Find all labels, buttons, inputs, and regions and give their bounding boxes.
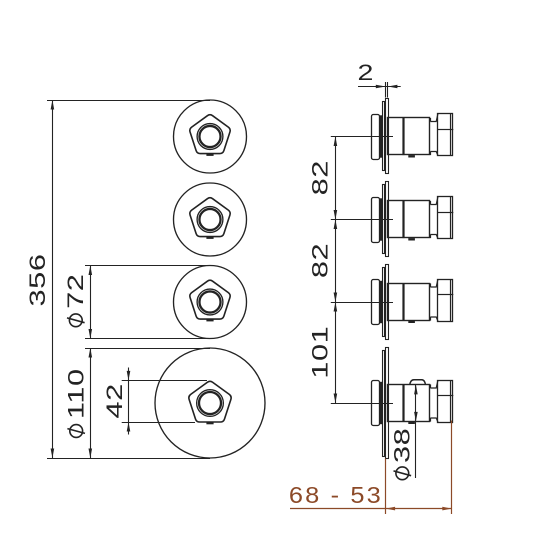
valve 2 (side view) bottom tab: [408, 238, 415, 240]
svg-text:110: 110: [64, 368, 89, 419]
valve 2 (side view) flange: [372, 198, 380, 243]
valve 4 (side view) wall plate front: [383, 351, 385, 457]
valve 3 (side view) flange: [372, 280, 380, 325]
knob 1 (front view) outer circle: [174, 100, 247, 173]
valve 1 (side view) gasket bar: [380, 115, 383, 157]
valve 4 (side view) bottom tab: [408, 422, 415, 424]
svg-text:42: 42: [102, 383, 127, 418]
dim phi72 diameter symbol: [67, 314, 85, 327]
knob 4 large (front view) outer circle: [155, 348, 265, 458]
depth dim left extension (brown): [385, 459, 387, 515]
valve 4 (side view) wall plate back: [386, 348, 389, 459]
depth dim right extension (brown): [451, 421, 453, 515]
knob 4 large (front view) pentagon handle: [189, 381, 231, 422]
valve 3 (side view) body divider: [402, 283, 404, 320]
valve 3 (side view) cap horizontal line: [438, 294, 453, 296]
knob 2 (front view) ring inner: [199, 209, 220, 230]
knob 2 (front view) pentagon handle: [190, 198, 230, 237]
valve 3 (side view) cartridge cap: [438, 280, 453, 322]
knob 2 (front view) outer circle: [174, 183, 247, 256]
valve 4 (side view) cap inner line: [450, 380, 452, 422]
dim 356 extension line top: [47, 100, 210, 102]
knob 1 (front view) ring inner: [199, 126, 220, 147]
valve 3 (side view) body: [388, 284, 430, 321]
knob 3 (front view) outer circle: [174, 266, 247, 339]
dim 356 extension line bottom: [47, 458, 210, 460]
valve 1 (side view) body: [388, 118, 430, 155]
dim phi110 diameter symbol: [67, 425, 85, 438]
valve 1 (side view) neck: [430, 114, 438, 156]
svg-text:356: 356: [25, 253, 50, 306]
knob 1 (front view) pentagon handle: [190, 115, 230, 154]
valve 4 (side view) cartridge cap: [438, 381, 453, 423]
valve 3 (side view) cap inner line: [450, 279, 452, 321]
knob 1 (front view) bottom tab: [206, 154, 213, 156]
valve 2 centerline: [331, 219, 393, 221]
chain dim line: [335, 137, 337, 404]
valve 2 (side view) body divider: [402, 201, 404, 238]
dim phi72 line: [90, 266, 92, 339]
svg-text:2: 2: [358, 61, 374, 85]
valve 2 (side view) cartridge cap: [438, 197, 453, 239]
valve 3 (side view) neck: [430, 279, 438, 321]
dim phi72 extension top: [85, 265, 210, 267]
valve 2 (side view) body: [388, 201, 430, 238]
knob 1 (front view) ring outer: [197, 124, 223, 150]
valve 1 (side view) wall plate back: [386, 99, 389, 174]
valve 1 (side view) body divider: [402, 118, 404, 155]
valve 4 (side view) neck: [430, 380, 438, 422]
valve 4 (side view) gasket bar: [380, 382, 383, 424]
valve 1 (side view) cap horizontal line: [438, 129, 453, 131]
valve 4 (side view) body divider: [402, 384, 404, 421]
knob 4 large (front view) bottom tab: [206, 422, 213, 424]
valve 2 (side view) wall plate back: [386, 182, 389, 257]
dim 2 extension lines: [385, 82, 387, 98]
valve 4 (side view) cap horizontal line: [438, 395, 453, 397]
valve 4 (side view) top lever dome: [410, 380, 426, 385]
knob 4 large (front view) ring inner: [199, 392, 221, 414]
valve 2 (side view) wall plate front: [383, 185, 385, 254]
svg-text:82: 82: [308, 160, 333, 195]
svg-text:72: 72: [63, 274, 88, 309]
valve 3 (side view) bottom tab: [408, 321, 415, 323]
valve 1 (side view) wall plate front: [383, 102, 385, 171]
knob 3 (front view) ring inner: [199, 291, 220, 312]
dim 42 extension top: [122, 380, 207, 382]
svg-text:82: 82: [308, 243, 333, 278]
knob 3 (front view) pentagon handle: [190, 280, 230, 319]
valve 4 centerline: [331, 403, 393, 405]
dim phi110 extension top: [85, 348, 210, 350]
valve 2 (side view) cap inner line: [450, 197, 452, 239]
dim 2 line: [358, 86, 401, 88]
dim phi72 extension bottom: [85, 338, 210, 340]
valve 1 (side view) cartridge cap: [438, 114, 453, 156]
svg-text:38: 38: [390, 428, 415, 463]
knob 3 (front view) bottom tab: [206, 319, 213, 321]
dim phi38 line: [415, 385, 417, 478]
valve 3 (side view) wall plate back: [386, 265, 389, 340]
valve 1 (side view) bottom tab: [408, 155, 415, 157]
valve 3 (side view) gasket bar: [380, 281, 383, 323]
knob 2 (front view) ring outer: [197, 207, 223, 233]
valve 3 centerline: [331, 302, 393, 304]
valve 2 (side view) cap horizontal line: [438, 212, 453, 214]
dim phi110 line: [90, 348, 92, 458]
valve 4 (side view) body: [388, 385, 430, 422]
valve 3 (side view) wall plate front: [383, 268, 385, 337]
knob 2 (front view) bottom tab: [206, 237, 213, 239]
depth dim line (brown): [290, 508, 452, 510]
valve 2 (side view) neck: [430, 197, 438, 239]
valve 1 (side view) cap inner line: [450, 114, 452, 156]
valve 1 centerline: [331, 136, 393, 138]
dim 42 line: [128, 368, 130, 435]
knob 3 (front view) ring outer: [197, 289, 223, 315]
dim phi38 diameter symbol: [394, 467, 412, 480]
valve 1 (side view) flange: [372, 115, 380, 160]
valve 4 (side view) flange: [372, 381, 380, 426]
dim 42 extension bottom: [122, 422, 195, 424]
dim 356 line: [52, 100, 54, 458]
knob 4 large (front view) ring outer: [197, 390, 224, 417]
svg-text:68 - 53: 68 - 53: [289, 483, 383, 509]
svg-text:101: 101: [308, 326, 333, 379]
valve 2 (side view) gasket bar: [380, 198, 383, 240]
